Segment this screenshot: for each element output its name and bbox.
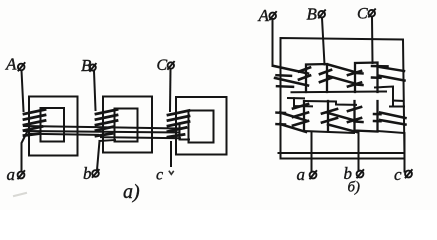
mid left step [288,97,304,99]
frame bottom inner line [279,152,404,154]
wire A2 [272,19,274,66]
mid connector H2 with step [304,101,356,105]
winding W2 (phase B) [96,110,117,137]
svg-text:C: C [357,6,368,23]
wire to terminal a2 [311,132,313,171]
leg 1 upper winding [306,64,327,92]
mid connector H1 [292,91,387,94]
phase A connectors (left) [274,66,308,132]
leg 1 lower turn flags [293,104,337,126]
phase B connectors (between legs) [328,65,363,133]
svg-text:c: c [394,165,402,184]
transformer T1 core window [41,108,65,142]
svg-text:A: A [5,55,17,74]
transformer T2 core window [115,109,138,142]
svg-text:c: c [156,167,163,184]
svg-text:а): а) [123,181,140,203]
bus wire 2 between windings [24,131,180,133]
frame (core) [281,38,405,159]
wire C down to winding [169,69,172,111]
svg-text:A: A [258,6,270,25]
winding W2 bottom bar [100,140,116,141]
wire winding to terminal b [97,141,100,170]
c link [378,131,405,172]
bus wire 3a T1 to T2 [30,134,98,135]
svg-text:C: C [157,57,168,74]
leg 2 lower winding [355,101,378,132]
right step connector [375,87,393,107]
wire C2 [371,17,374,63]
bus wire 3b T2 to T3 [101,137,180,138]
phase C connectors (right) [372,66,406,125]
svg-text:a: a [297,165,306,184]
winding W1 (phase A) [24,110,45,136]
svg-text:B: B [307,5,318,24]
faint mark bottom-left [14,193,26,196]
svg-text:б): б) [348,180,361,196]
terminal c (faded) [156,167,173,184]
transformer T1 core outer [29,97,78,156]
wire B down to winding [94,71,96,110]
bus end bracket at T3 [180,125,190,140]
transformer T3 core window [189,111,214,143]
leg 2 lower turn flags [348,107,361,122]
svg-text:b: b [83,164,92,183]
winding W3 (phase C) [168,111,189,138]
svg-text:a: a [7,165,16,184]
transformer T3 core outer [176,97,227,155]
leg 1 bottom edge link [304,131,354,133]
wire winding to terminal c [170,142,172,166]
leg 1 upper turn flags [299,68,331,83]
leg 1 lower winding [303,101,305,131]
wire A down to winding [22,71,24,112]
leg 2 upper winding [355,63,378,93]
transformer T2 core outer [103,97,152,153]
bus wire 1 between windings [24,126,180,129]
leg 2 upper turn flags [348,71,361,87]
wire winding to terminal a [22,131,28,171]
wire B2 [322,18,325,65]
wire to terminal b2 [358,131,360,171]
